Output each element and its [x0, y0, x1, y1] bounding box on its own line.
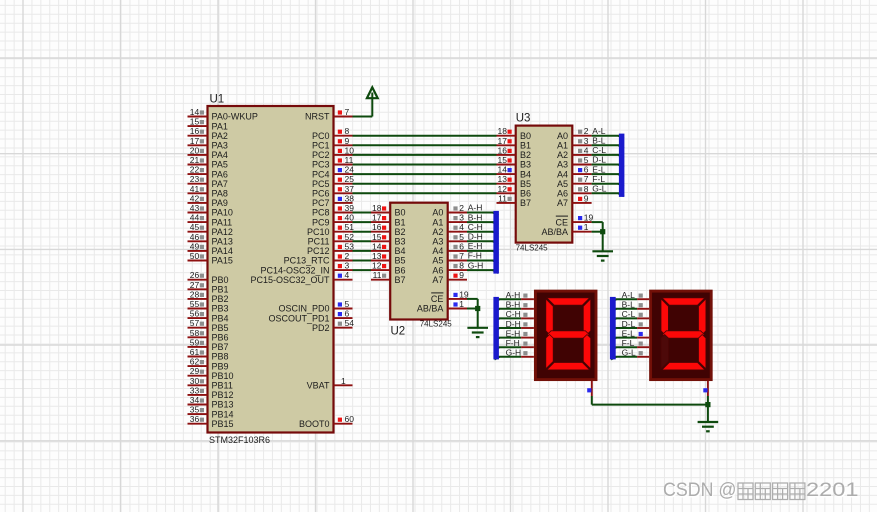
- svg-text:2: 2: [459, 203, 464, 213]
- U3 pin 12 (B6): [497, 184, 532, 199]
- DS2 segment pin E-L: [611, 328, 649, 340]
- svg-text:17: 17: [372, 213, 382, 223]
- svg-text:F-L: F-L: [622, 338, 635, 348]
- svg-text:13: 13: [498, 174, 508, 184]
- U1 pin 46 (PA13): [188, 232, 233, 247]
- svg-text:A4: A4: [432, 246, 443, 256]
- svg-text:PC10: PC10: [307, 227, 330, 237]
- svg-text:PB4: PB4: [212, 313, 229, 323]
- U2 pin 18 (B0): [371, 203, 406, 218]
- svg-text:61: 61: [190, 347, 200, 357]
- U3 pin 1 (AB/BA): [541, 222, 591, 237]
- svg-text:A3: A3: [557, 160, 568, 170]
- U1 pin 8 (PC0): [312, 126, 353, 141]
- wire U2 A4 to bus (net E-H): [467, 251, 498, 254]
- svg-text:PB9: PB9: [212, 361, 229, 371]
- U1 pin 39 (PC8): [312, 203, 354, 218]
- junction at U3 AB/BA ground wire: [600, 229, 605, 234]
- svg-text:44: 44: [190, 213, 200, 223]
- svg-text:49: 49: [190, 241, 200, 251]
- svg-text:7: 7: [345, 107, 350, 117]
- wire PC14 to U2 B6: [353, 269, 372, 271]
- svg-text:3: 3: [459, 213, 464, 223]
- svg-text:PC5: PC5: [312, 179, 330, 189]
- svg-text:30: 30: [190, 376, 200, 386]
- svg-text:11: 11: [345, 155, 354, 165]
- IC U1 STM32F103R6 body: [208, 106, 334, 433]
- svg-text:74LS245: 74LS245: [516, 244, 549, 253]
- wire PC6 (U1 pin 37) to U3 B6: [353, 192, 497, 194]
- wire U2 pin 19 (CE) to ground net: [467, 299, 478, 327]
- svg-text:4: 4: [345, 270, 350, 280]
- svg-text:PC14-OSC32_IN: PC14-OSC32_IN: [260, 265, 329, 275]
- wire PC11 to U2 B3: [353, 240, 372, 242]
- U1 pin 11 (PC3): [312, 155, 354, 170]
- svg-text:PC12: PC12: [307, 246, 330, 256]
- svg-text:OSCIN_PD0: OSCIN_PD0: [278, 304, 329, 314]
- U2 pin 3 (A1): [432, 212, 482, 227]
- U3 pin 13 (B5): [497, 174, 532, 189]
- svg-text:PB11: PB11: [212, 381, 233, 391]
- U1 pin 42 (PA9): [188, 193, 228, 208]
- svg-text:PA0-WKUP: PA0-WKUP: [212, 112, 258, 122]
- U1 pin 59 (PB7): [188, 337, 229, 352]
- svg-text:9: 9: [584, 193, 589, 203]
- svg-text:D-H: D-H: [506, 319, 521, 329]
- svg-text:18: 18: [498, 126, 508, 136]
- svg-text:4: 4: [459, 222, 464, 232]
- U1 pin 6 (OSCOUT_PD1): [268, 309, 352, 324]
- svg-text:PB0: PB0: [212, 275, 229, 285]
- wire PC10 to U2 B2: [353, 231, 372, 233]
- svg-text:16: 16: [498, 145, 508, 155]
- U1 pin 4 (PC15-OSC32_OUT): [250, 270, 352, 285]
- svg-text:41: 41: [190, 184, 200, 194]
- svg-text:PB5: PB5: [212, 323, 229, 333]
- U2 pin 7 (A5): [432, 251, 481, 266]
- DS2 segment pin D-L: [611, 319, 649, 331]
- svg-text:3: 3: [345, 261, 350, 271]
- IC U3 74LS245 body: [516, 126, 573, 243]
- svg-text:9: 9: [345, 136, 350, 146]
- U1 pin 50 (PA15): [188, 251, 233, 266]
- DS1 digit segments: [546, 298, 591, 370]
- wire U2 A6 to bus (net G-H): [467, 270, 498, 273]
- U2 pin 9 (A7): [432, 270, 467, 285]
- svg-text:A-H: A-H: [506, 290, 521, 300]
- svg-text:A0: A0: [432, 208, 443, 218]
- svg-text:21: 21: [190, 155, 200, 165]
- svg-text:U2: U2: [391, 326, 406, 338]
- wire PC12 to U2 B4: [353, 250, 372, 252]
- U1 pin 28 (PB2): [188, 289, 229, 304]
- U2 pin 16 (B2): [371, 222, 406, 237]
- svg-text:A2: A2: [432, 227, 443, 237]
- U2 pin 19 (CE): [431, 289, 469, 304]
- junction at U2 AB/BA ground wire: [475, 306, 480, 311]
- svg-text:17: 17: [190, 136, 200, 146]
- DS2 digit segments: [661, 298, 706, 370]
- svg-text:E-H: E-H: [506, 328, 521, 338]
- svg-text:A1: A1: [432, 217, 443, 227]
- svg-text:74LS245: 74LS245: [420, 320, 453, 329]
- U2 pin 14 (B4): [371, 241, 406, 256]
- U2 pin 8 (A6): [432, 260, 483, 275]
- U3 pin 16 (B2): [497, 145, 532, 160]
- 7-segment display DS1 body: [535, 291, 596, 380]
- U1 pin 52 (PC11): [308, 232, 355, 247]
- U1 pin 1 (VBAT): [307, 376, 353, 391]
- U1 pin 7 (NRST): [305, 107, 353, 122]
- U3 pin 3 (A1): [557, 136, 606, 151]
- svg-text:CE: CE: [555, 217, 568, 227]
- svg-text:22: 22: [190, 165, 200, 175]
- wire U3 A1 to bus (net B-L): [592, 145, 624, 148]
- svg-text:A3: A3: [432, 237, 443, 247]
- svg-text:4: 4: [584, 145, 589, 155]
- U1 pin 58 (PB6): [188, 328, 229, 343]
- wire U3 pin 1 (AB/BA) to ground net: [592, 231, 603, 233]
- svg-text:B-L: B-L: [622, 300, 636, 310]
- svg-text:6: 6: [345, 309, 350, 319]
- U3 pin 2 (A0): [557, 126, 606, 141]
- svg-text:62: 62: [190, 357, 200, 367]
- svg-text:C-L: C-L: [622, 309, 636, 319]
- U2 pin 4 (A2): [432, 222, 482, 237]
- U1 pin 33 (PB12): [188, 385, 234, 400]
- wire PC8 to U2 B0: [353, 212, 372, 214]
- svg-text:PA13: PA13: [212, 237, 233, 247]
- ground symbol below displays: [698, 422, 719, 431]
- svg-text:U1: U1: [210, 94, 225, 106]
- svg-text:14: 14: [498, 165, 508, 175]
- svg-text:A0: A0: [557, 131, 568, 141]
- svg-text:D-L: D-L: [592, 155, 606, 165]
- svg-text:E-L: E-L: [622, 328, 636, 338]
- wire U3 A0 to bus (net A-L): [592, 136, 624, 139]
- svg-text:59: 59: [190, 337, 200, 347]
- svg-text:11: 11: [373, 270, 382, 280]
- U1 pin 29 (PB10): [188, 366, 234, 381]
- svg-text:VBAT: VBAT: [307, 381, 330, 391]
- U1 pin 51 (PC10): [307, 222, 354, 237]
- svg-text:16: 16: [190, 126, 200, 136]
- U1 pin 34 (PB13): [188, 395, 234, 410]
- U1 pin 55 (PB3): [188, 299, 229, 314]
- svg-text:9: 9: [459, 270, 464, 280]
- svg-text:PB7: PB7: [212, 342, 229, 352]
- U1 pin 27 (PB1): [188, 280, 229, 295]
- wire U2 A2 to bus (net C-H): [467, 232, 498, 235]
- svg-text:B6: B6: [395, 265, 406, 275]
- svg-text:17: 17: [498, 136, 508, 146]
- svg-text:15: 15: [372, 232, 382, 242]
- U3 value label 74LS245: [516, 244, 549, 253]
- U1 pin 41 (PA8): [188, 184, 228, 199]
- DS1 common pin (bottom): [587, 381, 592, 405]
- svg-text:50: 50: [190, 251, 200, 261]
- svg-text:B2: B2: [520, 150, 531, 160]
- U1 pin 5 (OSCIN_PD0): [278, 299, 352, 314]
- svg-text:E-H: E-H: [468, 241, 483, 251]
- svg-text:PB8: PB8: [212, 352, 229, 362]
- wire PC3 (U1 pin 11) to U3 B3: [353, 164, 497, 166]
- svg-text:1: 1: [584, 222, 589, 232]
- svg-text:B5: B5: [395, 256, 406, 266]
- DS2 common pin (bottom): [703, 381, 708, 405]
- svg-text:12: 12: [372, 261, 382, 271]
- wire U2 A3 to bus (net D-H): [467, 241, 498, 244]
- svg-text:A-L: A-L: [592, 126, 606, 136]
- svg-text:AB/BA: AB/BA: [417, 304, 444, 314]
- U1 pin 36 (PB15): [188, 414, 234, 429]
- svg-text:7: 7: [584, 174, 589, 184]
- svg-text:11: 11: [498, 193, 507, 203]
- U2 pin 6 (A4): [432, 241, 482, 256]
- svg-text:6: 6: [584, 165, 589, 175]
- U1 pin 43 (PA10): [188, 203, 233, 218]
- svg-text:PB12: PB12: [212, 390, 234, 400]
- svg-text:42: 42: [190, 193, 200, 203]
- svg-text:PA11: PA11: [212, 217, 233, 227]
- wire DS1 common to DS2 common: [592, 404, 708, 406]
- svg-text:23: 23: [190, 174, 200, 184]
- svg-text:PB13: PB13: [212, 400, 234, 410]
- DS2 segment pin C-L: [611, 309, 649, 321]
- U1 pin 10 (PC2): [312, 145, 354, 160]
- U1 pin 21 (PA5): [188, 155, 228, 170]
- U3 pin 17 (B1): [497, 136, 532, 151]
- svg-text:A-L: A-L: [622, 290, 636, 300]
- U1 pin 26 (PB0): [188, 270, 229, 285]
- svg-text:OSCOUT_PD1: OSCOUT_PD1: [268, 313, 329, 323]
- svg-text:PB3: PB3: [212, 304, 229, 314]
- svg-text:8: 8: [459, 261, 464, 271]
- svg-text:57: 57: [190, 318, 200, 328]
- U2 pin 2 (A0): [432, 203, 482, 218]
- U3 pin 9 (A7): [557, 193, 592, 208]
- svg-text:B1: B1: [395, 217, 406, 227]
- U1 pin 45 (PA12): [188, 222, 233, 237]
- U1 pin 57 (PB5): [188, 318, 229, 333]
- svg-text:PA5: PA5: [212, 160, 228, 170]
- svg-text:PA10: PA10: [212, 208, 233, 218]
- svg-text:5: 5: [584, 155, 589, 165]
- svg-text:PA7: PA7: [212, 179, 228, 189]
- 7-segment display DS2 body: [651, 291, 712, 380]
- U2 pin 13 (B5): [371, 251, 406, 266]
- DS2 segment pin F-L: [611, 338, 649, 350]
- svg-text:15: 15: [498, 155, 508, 165]
- svg-text:2201: 2201: [806, 480, 859, 501]
- wire U2 A0 to bus (net A-H): [467, 213, 498, 216]
- svg-text:B2: B2: [395, 227, 406, 237]
- U1 pin 44 (PA11): [188, 213, 233, 228]
- svg-text:PC1: PC1: [312, 141, 330, 151]
- svg-text:B0: B0: [395, 208, 406, 218]
- svg-text:B5: B5: [520, 179, 531, 189]
- svg-text:PC3: PC3: [312, 160, 330, 170]
- svg-text:15: 15: [190, 117, 200, 127]
- svg-text:PB1: PB1: [212, 285, 229, 295]
- DS2 segment pin G-L: [611, 348, 649, 360]
- svg-text:F-H: F-H: [468, 251, 482, 261]
- U1 pin 14 (PA0-WKUP): [188, 107, 258, 122]
- svg-text:28: 28: [190, 289, 200, 299]
- svg-text:13: 13: [372, 251, 382, 261]
- svg-text:B4: B4: [395, 246, 406, 256]
- svg-text:35: 35: [190, 405, 200, 415]
- U1 pin 35 (PB14): [188, 405, 234, 420]
- svg-text:STM32F103R6: STM32F103R6: [209, 435, 270, 445]
- U2 value label 74LS245: [420, 320, 453, 329]
- U3 pin 8 (A6): [557, 184, 607, 199]
- svg-text:8: 8: [584, 184, 589, 194]
- wire PC9 to U2 B1: [353, 221, 372, 223]
- wire U3 A5 to bus (net F-L): [592, 184, 624, 187]
- svg-text:B-L: B-L: [592, 136, 606, 146]
- svg-text:33: 33: [190, 385, 200, 395]
- svg-text:B3: B3: [520, 160, 531, 170]
- svg-text:PA8: PA8: [212, 189, 228, 199]
- svg-text:14: 14: [372, 241, 382, 251]
- svg-text:A5: A5: [557, 179, 568, 189]
- svg-text:AB/BA: AB/BA: [541, 227, 568, 237]
- U3 pin 15 (B3): [497, 155, 532, 170]
- svg-text:G-L: G-L: [622, 348, 636, 358]
- DS1 segment pin E-H: [494, 328, 534, 340]
- svg-text:PC6: PC6: [312, 189, 330, 199]
- svg-text:PC4: PC4: [312, 169, 330, 179]
- bus segment at DS1 (nets A-H..G-H): [493, 297, 499, 360]
- svg-text:B6: B6: [520, 189, 531, 199]
- wire PC13 to U2 B5: [353, 260, 372, 262]
- U3 pin 6 (A4): [557, 164, 606, 179]
- svg-text:A1: A1: [557, 141, 568, 151]
- U1 pin 56 (PB4): [188, 309, 229, 324]
- wire U1.NRST to power arrow: [353, 116, 373, 118]
- svg-text:12: 12: [498, 184, 508, 194]
- U1 reference label: [210, 94, 225, 106]
- U3 pin 4 (A2): [557, 145, 606, 160]
- svg-text:PA4: PA4: [212, 150, 228, 160]
- svg-text:2: 2: [584, 126, 589, 136]
- svg-text:B-H: B-H: [506, 300, 521, 310]
- svg-text:8: 8: [345, 126, 350, 136]
- svg-text:2: 2: [345, 251, 350, 261]
- U2 pin 1 (AB/BA): [417, 299, 467, 314]
- svg-text:38: 38: [345, 193, 355, 203]
- svg-text:46: 46: [190, 232, 200, 242]
- U1 pin 53 (PC12): [307, 241, 354, 256]
- wire U3 A6 to bus (net G-L): [592, 193, 624, 196]
- svg-text:B4: B4: [520, 169, 531, 179]
- U1 pin 2 (PC13_RTC): [284, 251, 353, 266]
- svg-text:C-H: C-H: [468, 222, 483, 232]
- svg-text:55: 55: [190, 299, 200, 309]
- wire U3 A3 to bus (net D-L): [592, 165, 624, 168]
- svg-text:43: 43: [190, 203, 200, 213]
- svg-text:C-L: C-L: [592, 145, 606, 155]
- U3 pin 5 (A3): [557, 155, 606, 170]
- svg-text:A7: A7: [432, 275, 443, 285]
- wire PC0 (U1 pin 8) to U3 B0: [353, 135, 497, 137]
- svg-text:PC15-OSC32_OUT: PC15-OSC32_OUT: [250, 275, 330, 285]
- bus segment at DS2 (nets A-L..G-L): [610, 297, 616, 360]
- svg-text:PC11: PC11: [308, 237, 330, 247]
- svg-text:PC2: PC2: [312, 150, 330, 160]
- U3 reference label: [516, 113, 531, 125]
- svg-text:U3: U3: [516, 113, 531, 125]
- U2 reference label: [391, 326, 406, 338]
- svg-text:PA3: PA3: [212, 141, 228, 151]
- svg-text:PA12: PA12: [212, 227, 233, 237]
- svg-text:A6: A6: [432, 265, 443, 275]
- svg-text:3: 3: [584, 136, 589, 146]
- svg-text:PA2: PA2: [212, 131, 228, 141]
- wire U3 A2 to bus (net C-L): [592, 155, 624, 158]
- wire U3 pin 19 (CE) to ground net: [592, 222, 603, 251]
- svg-text:18: 18: [372, 203, 382, 213]
- svg-text:B1: B1: [520, 141, 531, 151]
- svg-text:34: 34: [190, 395, 200, 405]
- svg-text:NRST: NRST: [305, 112, 330, 122]
- U3 pin 18 (B0): [497, 126, 532, 141]
- U1 pin 16 (PA2): [188, 126, 228, 141]
- DS1 segment pin B-H: [494, 300, 534, 312]
- U1 pin 49 (PA14): [188, 241, 233, 256]
- U2 pin 15 (B3): [371, 232, 406, 247]
- U1 pin 17 (PA3): [188, 136, 228, 151]
- svg-text:1: 1: [459, 299, 464, 309]
- svg-text:7: 7: [459, 251, 464, 261]
- svg-text:B7: B7: [395, 275, 406, 285]
- bus segment at U3 A-side (nets A-L..G-L): [619, 134, 625, 197]
- svg-text:G-L: G-L: [592, 184, 606, 194]
- DS2 segment pin B-L: [611, 300, 649, 312]
- svg-text:CE: CE: [431, 294, 444, 304]
- U1 pin 37 (PC6): [312, 184, 354, 199]
- wire U2 A1 to bus (net B-H): [467, 222, 498, 225]
- svg-text:PA6: PA6: [212, 169, 228, 179]
- svg-text:BOOT0: BOOT0: [299, 419, 330, 429]
- svg-text:PA14: PA14: [212, 246, 233, 256]
- U1 pin 22 (PA6): [188, 165, 228, 180]
- U1 pin 23 (PA7): [188, 174, 228, 189]
- U3 pin 19 (CE): [555, 213, 593, 228]
- svg-text:PD2: PD2: [312, 323, 330, 333]
- svg-text:B3: B3: [395, 237, 406, 247]
- U1 pin 25 (PC5): [312, 174, 354, 189]
- svg-text:1: 1: [341, 376, 346, 386]
- svg-text:F-L: F-L: [592, 174, 605, 184]
- svg-text:PB2: PB2: [212, 294, 229, 304]
- svg-text:58: 58: [190, 328, 200, 338]
- svg-text:PB6: PB6: [212, 333, 229, 343]
- svg-text:PB14: PB14: [212, 409, 234, 419]
- junction at DS2 common / ground: [705, 402, 710, 421]
- U1 pin 20 (PA4): [188, 145, 228, 160]
- DS1 segment pin D-H: [494, 319, 534, 331]
- U1 pin 24 (PC4): [312, 165, 354, 180]
- svg-text:PA9: PA9: [212, 198, 228, 208]
- svg-text:56: 56: [190, 309, 200, 319]
- U1 pin 15 (PA1): [188, 117, 228, 132]
- svg-text:PA15: PA15: [212, 256, 233, 266]
- svg-text:B-H: B-H: [468, 212, 483, 222]
- wire PC4 (U1 pin 24) to U3 B4: [353, 173, 497, 175]
- svg-text:B7: B7: [520, 198, 531, 208]
